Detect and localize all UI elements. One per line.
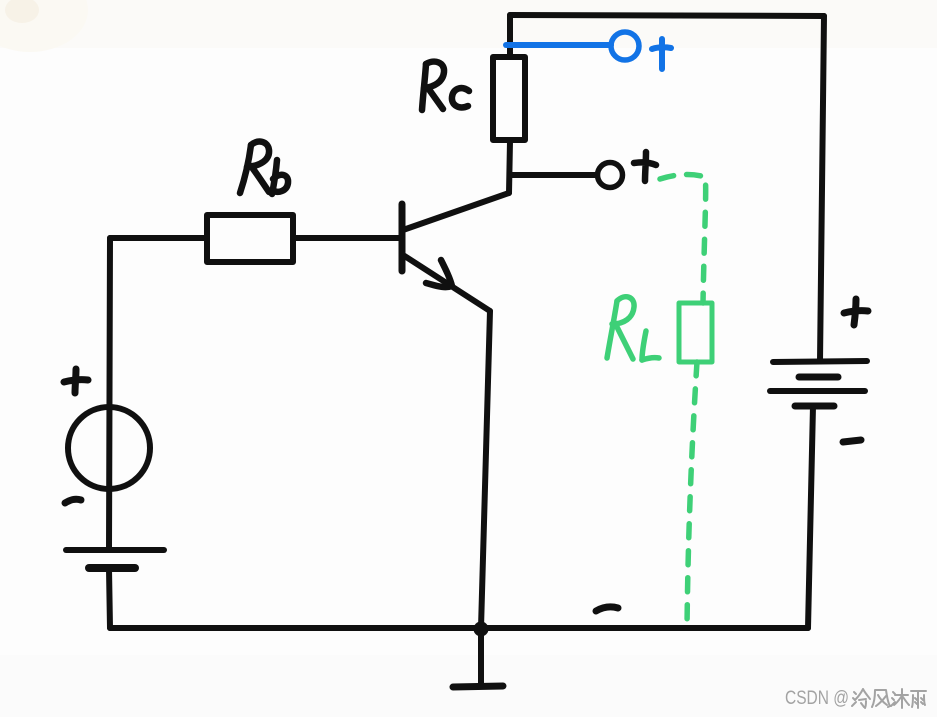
wire left rail to Rb [110, 235, 207, 241]
wire blue probe [506, 32, 671, 69]
wire left vertical [109, 238, 110, 550]
watermark CJK glyph 4 [911, 691, 926, 708]
battery V1 short plate [89, 564, 135, 572]
label - (source) [65, 499, 81, 503]
label + (output) [634, 152, 656, 181]
wire collector to Rc [509, 141, 510, 193]
ground stem [478, 629, 484, 685]
transistor Q1 emitter arrow [426, 260, 452, 287]
watermark CJK glyph 1 [852, 689, 926, 708]
label + (blue) [652, 39, 671, 69]
wire emitter to bottom rail [481, 311, 490, 628]
battery V2 long plate 2 [770, 388, 865, 394]
transistor Q1 collector stroke [403, 193, 509, 230]
load RL dashed wire upper [607, 175, 712, 628]
label Rb [240, 142, 288, 194]
svg-text:CSDN @: CSDN @ [785, 688, 849, 709]
label + (right battery) [844, 299, 868, 325]
source V1 circle [68, 407, 150, 489]
transistor Q1 base bar [399, 204, 406, 271]
wire Rc to top rail [507, 15, 513, 57]
label - (right battery) [843, 440, 861, 442]
battery V2 long plate 1 [773, 361, 867, 362]
wire right vertical lower [808, 406, 813, 628]
resistor RL body [679, 303, 712, 362]
wire bottom (ground rail) [110, 625, 808, 631]
wire battery V1 to bottom rail [109, 569, 110, 628]
label Rc [422, 62, 469, 110]
battery V2 short plate 1 [799, 374, 838, 381]
watermark CJK glyph 2 [872, 690, 890, 707]
label + (source) [64, 369, 88, 393]
wire Rb to base [293, 235, 400, 241]
resistor Rc body [493, 57, 525, 140]
label RL [607, 301, 617, 358]
load RL dashed wire lower [687, 362, 697, 628]
label - (output bottom) [596, 607, 618, 611]
wire top (Vcc rail) [510, 15, 824, 16]
battery V1 long plate [66, 547, 164, 553]
resistor Rb body [207, 215, 293, 262]
watermark CJK glyph 3 [891, 692, 895, 706]
ground bar [453, 686, 503, 687]
wire right vertical upper [820, 16, 824, 361]
wire collector tap to output terminal [510, 172, 597, 178]
node emitter-ground junction [474, 622, 489, 637]
transistor Q1 emitter stroke [403, 255, 490, 311]
terminal blue circle [611, 32, 639, 60]
battery V2 short plate 2 [795, 403, 834, 410]
terminal output circle [598, 163, 623, 188]
